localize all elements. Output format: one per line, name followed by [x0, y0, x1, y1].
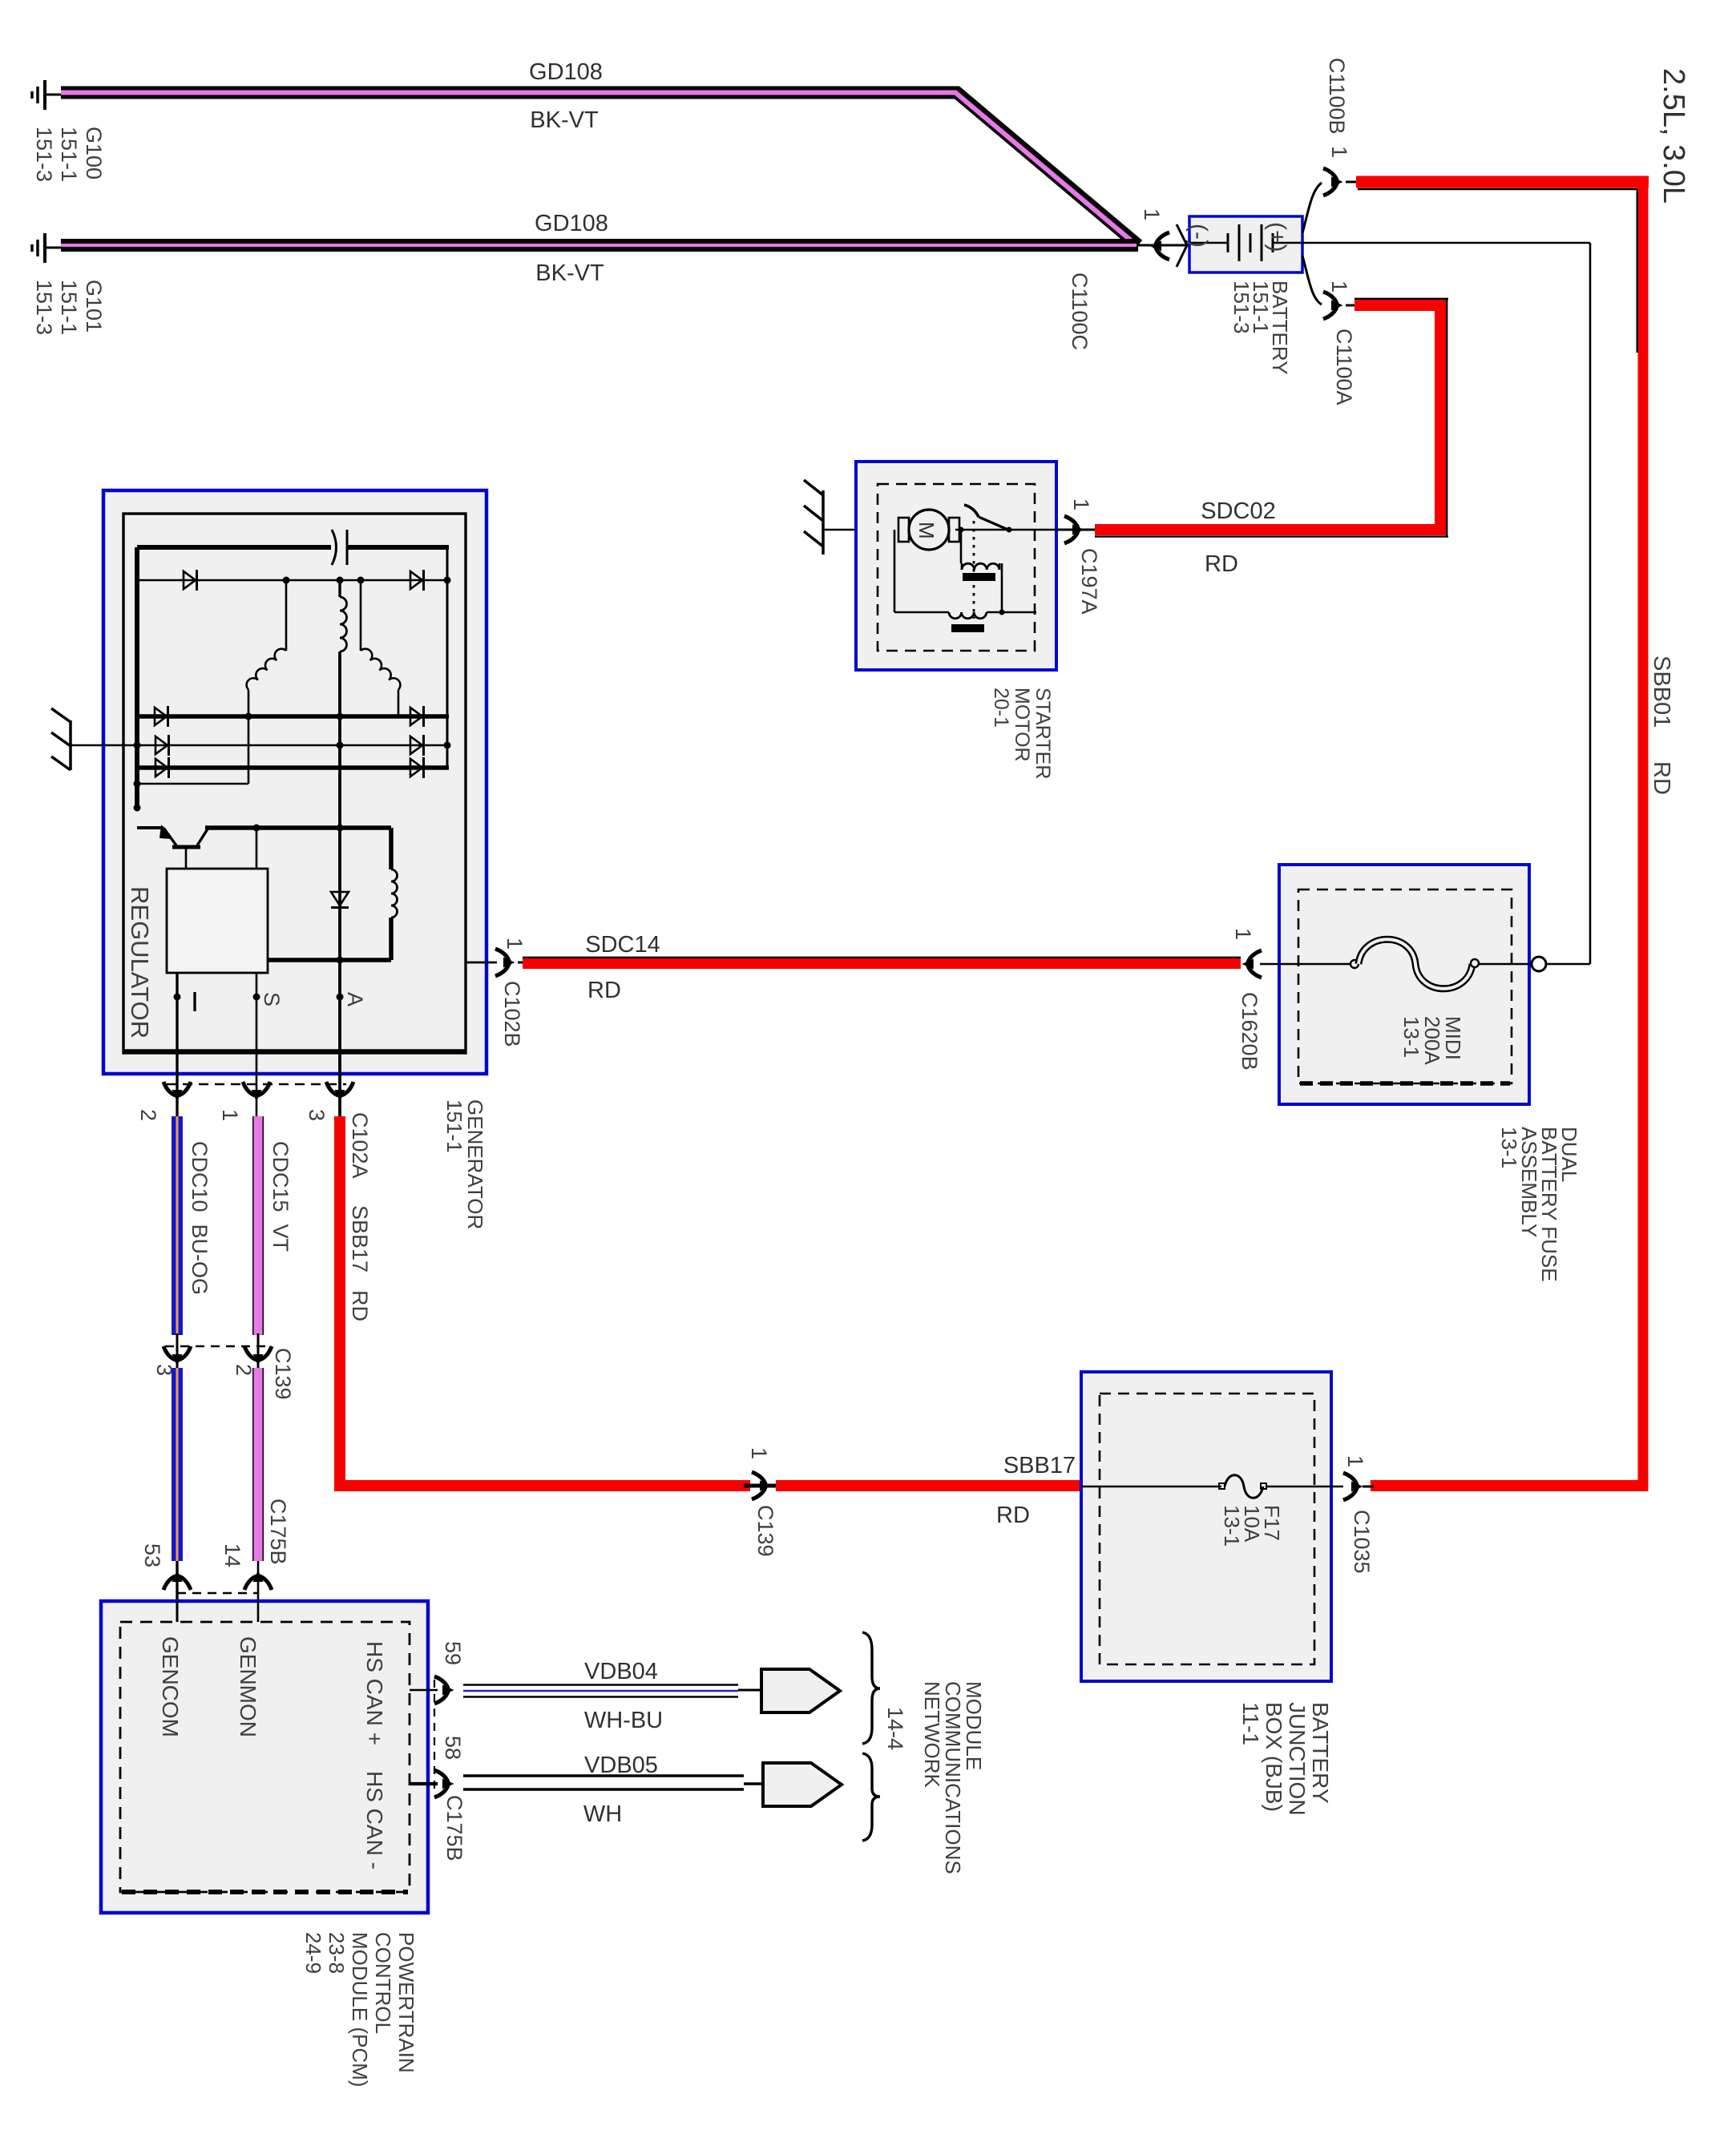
svg-text:A: A	[343, 992, 367, 1006]
svg-text:C139: C139	[271, 1348, 295, 1400]
svg-text:M: M	[914, 522, 939, 539]
svg-text:1: 1	[1140, 208, 1164, 220]
svg-text:1: 1	[1327, 146, 1351, 158]
wire C1035 to SBB01	[1363, 1486, 1374, 1488]
svg-text:C1035: C1035	[1350, 1510, 1374, 1574]
generator terminal I (minus)	[174, 973, 196, 1118]
connector C1100A arrow	[1323, 292, 1343, 319]
wire battery to C1100A	[1302, 256, 1322, 305]
generator pin wires to C102A	[0, 0, 1, 1]
ground G100	[32, 80, 63, 110]
svg-text:2: 2	[232, 1364, 256, 1376]
svg-text:RD: RD	[587, 978, 621, 1003]
off-page arrow (VDB04)	[761, 1669, 840, 1712]
generator top bus with capacitor	[137, 530, 449, 808]
wire battery plus to MIDI (thin)	[1302, 243, 1590, 964]
generator rectifier row A	[137, 570, 451, 591]
svg-text:58: 58	[441, 1736, 465, 1760]
svg-text:1: 1	[1231, 928, 1255, 940]
connector C102A arrows	[164, 1082, 191, 1102]
connector C1100B arrow	[1323, 168, 1343, 196]
MIDI dual battery fuse box	[1279, 865, 1529, 1104]
off-page arrow (VDB05)	[763, 1763, 842, 1806]
fuse F17	[1081, 1475, 1343, 1499]
svg-text:RD: RD	[1205, 551, 1238, 577]
svg-text:SDC14: SDC14	[585, 932, 660, 958]
inline connector halves at battery	[1177, 224, 1187, 267]
wire CDC10 BU-OG (upper)	[172, 1116, 183, 1335]
svg-text:C102B: C102B	[500, 981, 524, 1047]
svg-text:SBB17: SBB17	[1003, 1453, 1076, 1478]
svg-text:53: 53	[140, 1543, 164, 1567]
svg-text:HS CAN -: HS CAN -	[362, 1771, 387, 1870]
generator bottom edge thick	[123, 1049, 466, 1054]
connector C175B arrows (pins 53 and 14)	[164, 1571, 191, 1591]
svg-text:VDB05: VDB05	[584, 1753, 658, 1778]
svg-text:1: 1	[218, 1109, 242, 1121]
svg-text:59: 59	[441, 1641, 465, 1665]
starter solenoid coil 2	[894, 530, 1036, 632]
wire GD108 BK-VT (from G101)	[61, 239, 1138, 252]
ground G101	[32, 233, 63, 263]
connector pin 59 arrow	[434, 1676, 454, 1704]
generator regulator box	[167, 828, 268, 973]
wire VDB04 WH-BU	[463, 1685, 761, 1697]
PCM pin 59 wire	[410, 1689, 438, 1692]
generator output line A (vertical)	[337, 651, 344, 1118]
wire SBB17 RD horizontal to BJB	[334, 1480, 1081, 1491]
wire generator to C102B	[466, 962, 497, 964]
connector C1100C arrow	[1150, 232, 1170, 260]
brace (VDB04)	[862, 1632, 880, 1744]
svg-text:HS CAN +: HS CAN +	[362, 1641, 387, 1745]
svg-text:GD108: GD108	[529, 59, 603, 85]
generator transistor	[134, 805, 209, 869]
svg-text:SBB17: SBB17	[348, 1205, 372, 1273]
svg-text:C175B: C175B	[266, 1499, 290, 1565]
wire CDC15 VT (upper)	[252, 1116, 264, 1335]
svg-text:REGULATOR: REGULATOR	[126, 886, 154, 1039]
connector C102A dashed line	[167, 1083, 346, 1085]
svg-text:GENCOM: GENCOM	[158, 1636, 183, 1737]
wire VDB05 WH	[463, 1776, 763, 1789]
generator rectifier row D	[137, 757, 449, 778]
connector C175B dashed line	[177, 1592, 258, 1594]
svg-text:C1100C: C1100C	[1068, 272, 1092, 350]
generator rectifier row B	[137, 706, 449, 727]
battery box	[1189, 216, 1302, 272]
svg-text:WH-BU: WH-BU	[584, 1708, 663, 1733]
wire SBB01 RD (battery to BJB, right side)	[1346, 176, 1649, 1491]
svg-text:GD108: GD108	[535, 211, 608, 236]
connector C139 (CDC wires) dashed line	[165, 1345, 271, 1347]
svg-text:BK-VT: BK-VT	[530, 107, 599, 133]
generator terminal A	[337, 992, 368, 1006]
connector C1620B arrow	[1242, 950, 1262, 978]
starter motor M	[898, 510, 959, 550]
generator field coil	[391, 869, 398, 918]
MIDI output terminal circle	[1532, 957, 1546, 971]
svg-text:14: 14	[220, 1543, 244, 1567]
wire SDC02 RD (C1100A to starter)	[1095, 298, 1448, 537]
connector C1035 arrow	[1343, 1473, 1363, 1500]
svg-text:C1100B: C1100B	[1325, 58, 1349, 135]
wire to connector C1100C	[1138, 244, 1189, 247]
connector C139 arrow (on SBB17)	[752, 1472, 772, 1499]
svg-text:S: S	[260, 992, 284, 1006]
wire GD108 BK-VT (from G100)	[61, 93, 1138, 246]
svg-text:C197A: C197A	[1077, 548, 1101, 615]
generator field supply line (thick)	[205, 825, 391, 961]
svg-text:1: 1	[1327, 280, 1351, 292]
svg-text:14-4: 14-4	[883, 1707, 907, 1750]
svg-text:WH: WH	[583, 1801, 622, 1827]
svg-text:CDC10 BU-OG: CDC10 BU-OG	[188, 1141, 212, 1295]
generator rectifier row C with external ground wire	[71, 735, 451, 756]
connector C197A arrow	[1064, 516, 1084, 543]
starter solenoid coil 1	[961, 530, 1002, 612]
PCM pin 58 wire	[410, 1782, 438, 1785]
generator stator phase 2 (center coil)	[340, 580, 347, 651]
connector C139 arrows	[164, 1346, 191, 1366]
PCM pin wires inside	[177, 1601, 258, 1622]
svg-text:G100151-1151-3: G100151-1151-3	[32, 127, 106, 182]
MIDI fuse element	[1260, 939, 1532, 989]
wire CDC10 BU-OG (lower)	[172, 1368, 183, 1561]
connector pin 58 arrow	[434, 1770, 454, 1797]
svg-text:G101151-1151-3: G101151-1151-3	[32, 280, 106, 335]
svg-text:(-): (-)	[1185, 224, 1212, 248]
svg-text:RD: RD	[348, 1290, 372, 1321]
svg-text:VDB04: VDB04	[584, 1659, 658, 1684]
svg-text:(+): (+)	[1264, 222, 1290, 252]
connector C175B dashed (right side)	[434, 1680, 435, 1795]
starter motor ground	[804, 480, 899, 555]
svg-text:SBB01: SBB01	[1649, 655, 1674, 728]
brace (VDB05)	[862, 1753, 880, 1841]
svg-text:1: 1	[1069, 498, 1093, 510]
wire SBB17 RD vertical from pin 3	[334, 1116, 345, 1491]
generator terminal S	[253, 973, 285, 1118]
generator stator phase 3 (right)	[361, 580, 400, 716]
svg-text:1: 1	[747, 1447, 771, 1459]
BJB box	[1081, 1372, 1331, 1681]
svg-text:2: 2	[136, 1109, 160, 1121]
wire CDC15 VT (lower)	[252, 1368, 264, 1561]
generator box	[103, 490, 486, 1074]
connector C102B arrow	[495, 949, 515, 976]
svg-text:C175B: C175B	[442, 1795, 466, 1862]
wires into C175B arrows	[177, 1561, 258, 1601]
wire SDC14 RD	[518, 958, 1241, 964]
wire battery to C1100B	[1302, 183, 1322, 233]
svg-text:F1710A13-1: F1710A13-1	[1220, 1505, 1284, 1547]
PCM box	[101, 1601, 428, 1913]
wire starter to C197A	[1056, 529, 1095, 531]
svg-text:RD: RD	[1649, 761, 1674, 795]
generator ground symbol	[51, 708, 71, 770]
starter motor box	[856, 462, 1056, 670]
svg-text:RD: RD	[996, 1503, 1030, 1528]
starter solenoid switch	[955, 505, 1056, 619]
svg-text:3: 3	[305, 1109, 329, 1121]
svg-text:CDC15 VT: CDC15 VT	[268, 1141, 293, 1252]
svg-text:C139: C139	[753, 1505, 777, 1557]
svg-text:SDC02: SDC02	[1201, 498, 1276, 524]
svg-text:C1100A: C1100A	[1332, 329, 1356, 405]
svg-text:1: 1	[503, 938, 527, 950]
svg-text:GENMON: GENMON	[236, 1636, 260, 1737]
svg-text:C1620B: C1620B	[1237, 992, 1262, 1071]
battery plates	[1227, 233, 1229, 252]
svg-text:C102A: C102A	[348, 1112, 372, 1179]
svg-text:1: 1	[1343, 1455, 1367, 1467]
svg-text:2.5L, 3.0L: 2.5L, 3.0L	[1657, 68, 1690, 204]
svg-text:BK-VT: BK-VT	[535, 260, 604, 286]
generator field diode	[331, 892, 349, 908]
generator stator phase 1 (left)	[134, 580, 287, 788]
